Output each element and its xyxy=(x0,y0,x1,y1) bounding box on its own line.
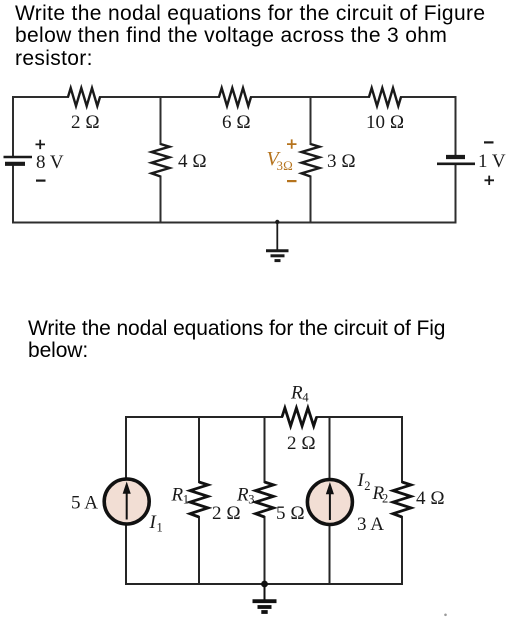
wire: branch R3 xyxy=(264,417,266,584)
svg-text:R: R xyxy=(236,485,249,506)
wire: circuit 1 right side xyxy=(455,97,457,223)
svg-text:2 Ω: 2 Ω xyxy=(71,112,100,133)
wire: circuit 2 top rail xyxy=(126,416,402,418)
svg-text:3 A: 3 A xyxy=(357,514,384,535)
junction dot circuit 2 xyxy=(261,581,268,588)
minus sign V3 xyxy=(287,180,297,182)
svg-text:6 Ω: 6 Ω xyxy=(222,112,251,133)
svg-text:4 Ω: 4 Ω xyxy=(416,488,445,509)
stray mark xyxy=(444,614,447,617)
current source I2 xyxy=(307,480,352,525)
svg-text:3: 3 xyxy=(248,493,254,507)
svg-text:1: 1 xyxy=(157,521,163,535)
wire: branch node2 (3 ohm) xyxy=(310,97,312,223)
svg-text:1: 1 xyxy=(183,493,189,507)
minus sign 8V xyxy=(36,180,46,182)
ground circuit 1 xyxy=(266,223,289,261)
wire: circuit 2 bottom rail xyxy=(126,583,402,585)
svg-text:5 Ω: 5 Ω xyxy=(276,503,305,524)
plus sign 8V xyxy=(36,140,46,149)
problem text 2 xyxy=(28,318,445,363)
resistor R2 xyxy=(393,482,411,517)
junction dot ground 1 xyxy=(275,220,279,224)
svg-text:3 Ω: 3 Ω xyxy=(327,151,356,172)
wire: branch R1 xyxy=(198,417,200,584)
resistor 4 ohm vertical xyxy=(152,144,170,177)
arrow I2 xyxy=(326,483,333,520)
battery V1 8V xyxy=(4,157,33,164)
svg-text:4: 4 xyxy=(302,391,309,405)
svg-text:1 V: 1 V xyxy=(478,151,506,172)
resistor R=6ohm top middle xyxy=(219,88,251,106)
svg-text:2 Ω: 2 Ω xyxy=(212,503,241,524)
current source I1 xyxy=(104,479,149,524)
wire: circuit 1 left side xyxy=(12,97,14,223)
svg-text:2: 2 xyxy=(364,479,370,493)
svg-text:R: R xyxy=(171,485,184,506)
svg-text:10 Ω: 10 Ω xyxy=(366,112,404,133)
problem text 1 xyxy=(15,3,485,71)
ground circuit 2 xyxy=(253,584,277,612)
plus sign 1V xyxy=(485,176,495,185)
wire: branch node1 (4 ohm) xyxy=(160,97,162,223)
arrow I1 xyxy=(123,483,130,520)
svg-text:2: 2 xyxy=(382,492,388,506)
wire: circuit 1 top rail xyxy=(13,96,456,98)
resistor R=10ohm top right xyxy=(369,88,401,106)
svg-text:8 V: 8 V xyxy=(36,152,64,173)
svg-text:3Ω: 3Ω xyxy=(277,158,294,173)
svg-text:R: R xyxy=(290,383,303,404)
wire: circuit 2 right side xyxy=(401,417,403,584)
resistor R3 xyxy=(256,482,274,517)
svg-text:4 Ω: 4 Ω xyxy=(178,151,207,172)
svg-text:2 Ω: 2 Ω xyxy=(287,433,316,454)
wire: circuit 1 bottom rail xyxy=(13,222,456,224)
svg-text:5 A: 5 A xyxy=(71,493,98,514)
plus sign V3 xyxy=(287,139,297,148)
wire: branch I2 xyxy=(329,417,331,584)
battery V2 1V xyxy=(437,157,475,164)
resistor R4 horizontal xyxy=(282,408,317,426)
minus sign 1V xyxy=(484,141,494,143)
wire: circuit 2 left side with source xyxy=(125,417,127,584)
resistor R=2ohm top left xyxy=(68,88,100,106)
resistor 3 ohm vertical xyxy=(302,144,320,177)
resistor R1 xyxy=(190,482,208,517)
